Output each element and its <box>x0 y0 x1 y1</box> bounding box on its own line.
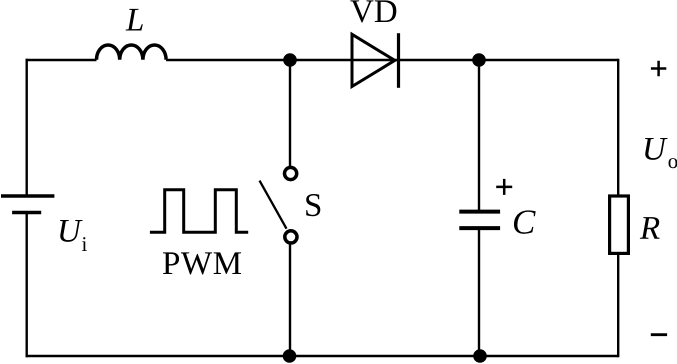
capacitor C top plate <box>459 210 500 214</box>
label C <box>514 210 536 233</box>
label L <box>126 9 143 31</box>
node B (top, capacitor junction) <box>472 53 486 67</box>
capacitor polarity plus <box>496 179 512 195</box>
capacitor C bottom plate <box>459 226 500 230</box>
switch upper contact circle <box>285 167 297 179</box>
node D1 (bottom, capacitor junction) <box>473 349 487 363</box>
wire right vertical upper (top corner to resistor) <box>617 59 619 196</box>
label S <box>306 194 320 216</box>
label VD <box>350 0 396 22</box>
node A (top, switch junction) <box>283 53 297 67</box>
inductor L <box>97 45 167 60</box>
output plus sign <box>651 61 666 76</box>
label R <box>640 217 660 239</box>
battery Ui positive plate <box>1 194 54 197</box>
wire left vertical upper (corner to battery) <box>26 59 28 196</box>
wire top horizontal (inductor to right corner, passing under diode) <box>166 59 618 61</box>
label Ui <box>60 220 87 251</box>
wire bottom horizontal <box>26 355 619 357</box>
wire top-left horizontal (left corner to inductor) <box>26 59 97 61</box>
battery Ui negative plate <box>12 211 41 214</box>
diode VD <box>352 33 399 88</box>
resistor R body <box>610 196 629 253</box>
wire capacitor branch lower (bottom plate to bottom node) <box>478 228 480 356</box>
wire switch branch lower (lower contact to bottom node) <box>289 245 291 357</box>
wire capacitor branch upper (node B to top plate) <box>478 60 480 212</box>
switch S lever <box>260 181 287 229</box>
output minus sign <box>651 333 667 336</box>
node C1 (bottom, switch junction) <box>283 349 297 363</box>
wire switch branch upper (node A to upper contact) <box>289 60 291 166</box>
switch lower contact circle <box>285 231 297 243</box>
wire left vertical lower (battery to bottom corner) <box>26 213 28 358</box>
label Uo <box>645 138 677 168</box>
label PWM <box>163 252 241 274</box>
PWM waveform <box>150 190 248 233</box>
wire right vertical lower (resistor to bottom corner) <box>617 253 619 357</box>
